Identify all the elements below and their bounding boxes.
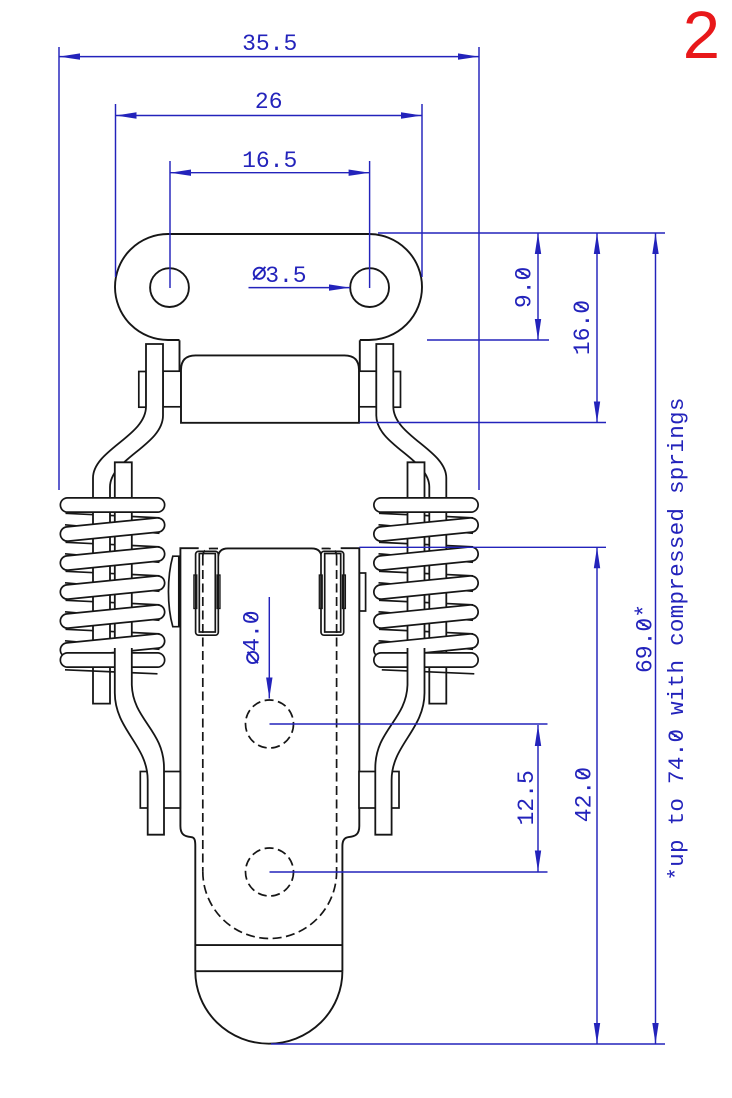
ext line strap top	[359, 546, 606, 548]
hidden hole 1 (dashed circle d4)	[246, 700, 294, 748]
svg-text:69.0*: 69.0*	[633, 604, 659, 673]
strap cross line lower	[195, 970, 342, 972]
hinge pin boss left	[163, 371, 181, 407]
leader d3.5 arrow	[329, 284, 350, 290]
right spring back coils	[379, 513, 473, 518]
right spring front coils	[381, 497, 471, 513]
wire B right bend (bail wire)	[375, 648, 424, 835]
svg-text:*up to 74.0 with compressed sp: *up to 74.0 with compressed springs	[664, 397, 690, 880]
dim 16.5 arrows	[170, 170, 191, 176]
svg-text:16.5: 16.5	[242, 148, 297, 174]
hinge pin end cap left	[139, 372, 146, 408]
left spring lowest back strand edge	[65, 670, 158, 674]
pivot pin end left (D profile)	[168, 556, 178, 627]
hinge pin boss right	[358, 371, 376, 407]
dim 9.0 arrows	[535, 233, 541, 254]
ext line bar bottom	[360, 422, 607, 424]
right spring lowest back strand edge	[382, 670, 475, 674]
dim 16.0 zero slash	[576, 303, 588, 310]
dim 26 arrows	[116, 112, 137, 118]
left spring front coils	[68, 497, 158, 513]
leader d4.0 arrowhead	[266, 678, 272, 699]
dim 69.0 zero slash	[638, 621, 650, 628]
label d3.5 diameter symbol	[254, 268, 265, 279]
spring keeper left	[196, 551, 219, 635]
svg-text:3.5: 3.5	[265, 263, 306, 289]
wire B left bend (bail wire)	[115, 648, 164, 835]
dim 16.5 ext line left	[169, 161, 171, 288]
wire A right (hinge wire)	[376, 344, 446, 704]
hidden hole 2 (dashed circle)	[246, 848, 294, 896]
strap cross line upper	[195, 944, 342, 946]
dim 35.5 arrows	[59, 53, 80, 59]
dim 16.5 ext line right	[369, 161, 371, 288]
lower pin left	[140, 772, 180, 809]
dim 42.0 line	[596, 547, 598, 1044]
plate ear right	[359, 340, 361, 371]
strap right edge + step	[341, 548, 360, 971]
ext line hole1	[270, 723, 548, 725]
dim 35.5 ext line left	[58, 47, 60, 490]
note zero slashes	[670, 732, 682, 739]
dim 69.0 line	[655, 233, 657, 1044]
label d4.0 diameter symbol	[247, 652, 258, 663]
svg-text:12.5: 12.5	[514, 770, 540, 825]
dim 26 ext line right	[421, 104, 423, 277]
ext line hole2	[270, 871, 548, 873]
dim 12.5 arrows	[535, 725, 541, 746]
dim 26 ext line left	[115, 104, 117, 277]
hidden strap top corners (dashed)	[203, 549, 337, 557]
leader d4.0 arrow line	[268, 597, 270, 699]
spring keeper right	[321, 551, 344, 635]
dim 26 line	[116, 115, 423, 117]
plate hole right (d3.5)	[350, 268, 389, 307]
dim 42.0 arrows	[594, 547, 600, 568]
dim 12.5 line	[537, 725, 539, 872]
ext line bottom tip	[271, 1043, 665, 1045]
left spring back coils	[66, 513, 160, 518]
svg-text:35.5: 35.5	[242, 31, 297, 57]
hidden strap bottom U (dashed)	[203, 872, 337, 939]
leader d3.5 line	[249, 287, 351, 289]
hinge pin end cap right	[393, 372, 400, 408]
dim 35.5 ext line right	[478, 47, 480, 490]
dim 16.5 line	[170, 172, 370, 174]
wire B right upper (bail wire)	[408, 462, 425, 648]
dim 16.0 line	[596, 233, 598, 423]
strap left edge + step	[180, 548, 198, 971]
dim 16.0 arrows	[594, 233, 600, 254]
dim 9.0 line	[537, 233, 539, 340]
wire B left upper (bail wire)	[115, 462, 132, 648]
strap bottom dome	[195, 971, 342, 1043]
label d4.0 zero slash	[245, 614, 257, 621]
lower pin right	[359, 772, 399, 809]
plate ear left	[179, 340, 181, 371]
strap top tongue (solid rounded top)	[218, 548, 322, 563]
top mounting plate (stadium, open between ears)	[115, 234, 422, 340]
dim 69.0 arrows	[652, 233, 658, 254]
wire A left (hinge wire)	[93, 344, 163, 704]
svg-text:26: 26	[255, 89, 283, 115]
svg-text:2: 2	[683, 0, 720, 73]
hidden strap left edge (dashed)	[202, 557, 204, 872]
plate hole left (d3.5)	[150, 268, 189, 307]
svg-text:4.0: 4.0	[240, 610, 266, 651]
dim 42.0 zero slash	[577, 770, 589, 777]
hidden strap right edge (dashed)	[336, 557, 338, 872]
ext line plate top	[378, 232, 665, 234]
hinge link bar	[181, 355, 359, 422]
pivot pin end right (rect)	[360, 573, 366, 611]
ext line plate bottom	[427, 339, 549, 341]
dim 9.0 zero slash	[517, 270, 529, 277]
svg-text:9.0: 9.0	[512, 267, 538, 308]
dim 35.5 line	[59, 56, 479, 58]
strap body white fill	[180, 548, 359, 1043]
